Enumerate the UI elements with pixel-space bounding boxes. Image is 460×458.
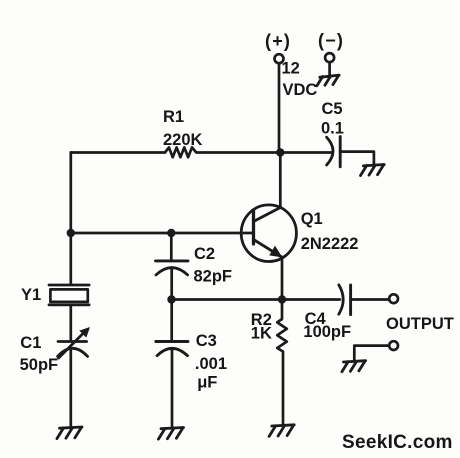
svg-text:C2: C2 [194,245,215,263]
svg-text:R1: R1 [163,108,184,126]
svg-text:SeekIC.com: SeekIC.com [342,432,453,453]
svg-text:C1: C1 [20,334,41,352]
svg-text:12: 12 [282,59,300,77]
svg-text:220K: 220K [163,131,203,149]
svg-text:(+): (+) [265,31,291,51]
svg-text:Q1: Q1 [301,210,323,228]
svg-text:2N2222: 2N2222 [301,235,359,253]
svg-text:0.1: 0.1 [321,120,344,138]
svg-text:50pF: 50pF [20,356,59,374]
svg-text:1K: 1K [251,325,272,343]
svg-text:C3: C3 [196,332,217,350]
svg-text:C5: C5 [322,100,343,118]
svg-text:(−): (−) [318,31,344,51]
svg-text:VDC: VDC [283,81,318,99]
svg-text:Y1: Y1 [21,286,41,304]
svg-text:μF: μF [197,374,217,392]
svg-text:OUTPUT: OUTPUT [386,315,454,333]
svg-text:.001: .001 [195,355,227,373]
svg-text:100pF: 100pF [303,323,351,341]
svg-text:82pF: 82pF [194,267,233,285]
